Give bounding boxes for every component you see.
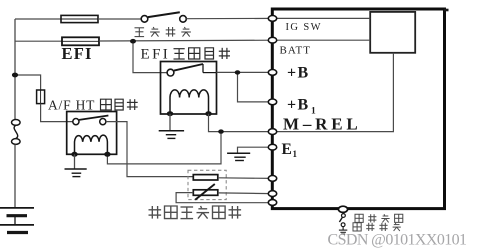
label: 空燃比传感器 (air-fuel ratio sensor)	[149, 206, 242, 219]
junction: M-REL / A-F coil	[218, 129, 224, 133]
svg-text:IG SW: IG SW	[286, 22, 322, 33]
label: +B1	[287, 97, 316, 117]
junction: A/F coil left / ground	[71, 152, 77, 157]
switch: key unlock warning switch	[339, 212, 345, 226]
svg-text:+B: +B	[287, 65, 310, 82]
coil of A/F relay	[75, 135, 108, 154]
fuse F2 (EFI fuse)	[62, 37, 99, 45]
label: E1	[282, 141, 298, 159]
wire: BATT line junction down to EFI relay switch	[133, 41, 167, 72]
wire: relay switch output to +B terminal	[217, 71, 273, 73]
ground: EFI relay coil ground	[159, 114, 184, 139]
terminal t8	[268, 191, 276, 197]
svg-text:EFI: EFI	[62, 44, 93, 63]
terminal: key warning switch (bottom edge)	[338, 206, 347, 212]
junction: EFI relay coil right / M-REL	[205, 111, 211, 116]
wire: connector to battery	[14, 144, 16, 207]
relay box: A/F HT relay	[67, 112, 117, 155]
wire: ECU top edge overhang artifact	[444, 9, 449, 12]
wire: EFI relay coil to M-REL terminal	[209, 114, 273, 132]
ground: E1	[227, 153, 250, 160]
wire: +B junction down to +B1 terminal	[238, 72, 273, 102]
switch: ignition switch (点火开关)	[141, 12, 186, 22]
resistor R1 (sensor heater)	[193, 175, 218, 180]
terminal M-REL	[268, 129, 276, 135]
coil of EFI relay	[170, 90, 209, 114]
junction: battery bus / A-F branch	[12, 73, 18, 78]
wire: A/F relay coil riser to M-REL line	[107, 132, 221, 164]
junction: +B / +B1	[235, 70, 241, 74]
label: A/F HT继电器 (A/F HT relay)	[48, 98, 138, 113]
svg-text:EFI: EFI	[141, 47, 171, 63]
ground: key warning switch	[339, 227, 347, 235]
watermark: CSDN @0101XX0101	[328, 232, 468, 249]
wire: fuse F1 to ignition switch	[98, 18, 141, 20]
ECU internal block U1 (relay driver square)	[370, 12, 415, 53]
label: 钥匙未锁 报警开关 (key unlock warning switch)	[353, 214, 403, 231]
connector: inline connector on battery bus	[12, 120, 21, 145]
wire: R2 right to ECU terminal	[218, 192, 272, 195]
wire: BATT terminal to block U1	[274, 39, 370, 41]
terminal +B	[268, 70, 276, 76]
junction: EFI relay coil left / ground	[167, 111, 173, 116]
label: BATT	[280, 45, 312, 57]
battery	[0, 208, 34, 233]
junction: BATT line / relay feed	[130, 39, 136, 44]
label: 点火开关 (ignition switch)	[135, 27, 191, 37]
wire: bus junction to fuse F3	[15, 75, 41, 90]
fuse F1	[61, 15, 98, 22]
switch contacts of A/F relay	[73, 116, 109, 125]
relay box: EFI main relay	[161, 62, 217, 115]
wire: battery bus to fuse F1 (top line)	[15, 18, 61, 20]
wire: IG SW terminal to block U1	[274, 17, 370, 19]
terminal t9	[268, 200, 276, 206]
svg-text:+B: +B	[287, 97, 310, 114]
terminal IG SW	[268, 16, 276, 22]
wire: R1 to ECU terminal	[218, 177, 272, 180]
ECU box	[272, 9, 444, 209]
terminal +B1	[268, 99, 276, 105]
ground: A/F relay coil ground	[65, 154, 87, 176]
wire: M-REL terminal to block U1 bottom	[274, 53, 393, 132]
junction: A/F coil right	[104, 152, 110, 157]
wire: R2 left loop to ECU bottom terminal	[176, 193, 272, 203]
wire: battery bus to fuse F2	[15, 40, 62, 42]
fuse F3 (A/F fuse)	[37, 90, 45, 104]
wire: E1 terminal to ground	[238, 147, 273, 152]
svg-text:M–REL: M–REL	[283, 115, 362, 134]
label: EFI主继电器 (EFI main relay)	[141, 47, 231, 63]
label: IG SW	[286, 22, 322, 33]
svg-text:A/F HT: A/F HT	[48, 98, 95, 113]
wire: A/F relay switch output to sensor heater	[106, 122, 193, 177]
sensor dashed box: 空燃比传感器	[188, 170, 226, 199]
resistor R2 (sensing element, variable)	[193, 184, 218, 200]
wire: ignition switch to IG SW terminal	[186, 17, 272, 19]
terminal BATT	[268, 37, 276, 43]
wire: left battery bus vertical	[14, 19, 16, 120]
switch contact of EFI relay	[167, 64, 216, 76]
label: EFI (fuse name)	[62, 44, 93, 63]
terminal t7	[268, 176, 276, 182]
label: M-REL	[283, 115, 362, 134]
svg-text:E: E	[282, 141, 292, 158]
wire: fuse F3 to A/F relay switch	[41, 104, 73, 122]
wire: fuse F2 to BATT terminal	[99, 39, 272, 42]
svg-text:1: 1	[293, 149, 298, 159]
svg-text:CSDN @0101XX0101: CSDN @0101XX0101	[328, 232, 468, 249]
label: +B	[287, 65, 310, 82]
terminal E1	[268, 144, 276, 150]
svg-text:BATT: BATT	[280, 45, 312, 57]
